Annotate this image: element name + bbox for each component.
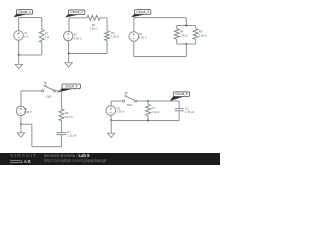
wire right-lower c2	[106, 41, 108, 54]
wire bottom bus c3	[177, 43, 196, 45]
svg-text:SW1: SW1	[46, 94, 52, 98]
voltage source V4	[16, 106, 25, 115]
wire right-upper c1	[41, 17, 43, 29]
node flag Circuit_5	[170, 95, 184, 101]
svg-text:6.35 V: 6.35 V	[139, 36, 147, 40]
svg-text:6.1k Ω: 6.1k Ω	[151, 110, 159, 114]
wire bottom c2	[69, 52, 107, 54]
voltage source V3	[129, 32, 139, 42]
CircuitLab logo	[10, 154, 36, 159]
svg-text:Circuit_1: Circuit_1	[18, 10, 31, 14]
node R7 bottom junction	[147, 119, 149, 121]
svg-text:1 Ω: 1 Ω	[45, 35, 49, 39]
resistor R5	[193, 29, 198, 40]
wire left-lower c4	[20, 116, 22, 125]
resistor R6	[59, 109, 64, 121]
wire R5 top stub	[195, 25, 197, 28]
svg-text:R6: R6	[65, 111, 69, 115]
node junction c1	[18, 54, 20, 56]
node flag Circuit_2	[65, 13, 79, 17]
attribution text	[44, 153, 89, 158]
svg-text:6.35 V: 6.35 V	[74, 36, 82, 40]
svg-text:V3: V3	[139, 32, 143, 36]
ground c1	[15, 64, 22, 68]
svg-text:R7: R7	[151, 106, 155, 110]
svg-text:R5: R5	[199, 30, 203, 34]
node junction c5	[110, 119, 112, 121]
wire left-lower c2	[67, 41, 69, 54]
svg-text:Circuit_2: Circuit_2	[70, 10, 83, 14]
wire right-upper c4	[60, 91, 62, 109]
switch SW2	[122, 100, 124, 102]
svg-text:Circuit_4: Circuit_4	[65, 85, 78, 89]
svg-text:1.35 µF: 1.35 µF	[185, 110, 195, 114]
capacitor C2	[175, 108, 184, 110]
wire bottom c4	[32, 146, 62, 148]
resistor R3	[105, 31, 110, 41]
svg-text:Circuit_5: Circuit_5	[175, 92, 188, 96]
svg-text:6.1k Ω: 6.1k Ω	[65, 115, 73, 119]
wire left-upper c2	[68, 18, 70, 32]
wire R7 bottom stub	[147, 116, 149, 121]
wire left-upper c4	[20, 91, 22, 106]
wire top-left c4	[21, 90, 42, 92]
node bottom bus junction c3	[185, 43, 187, 45]
svg-text:R3: R3	[111, 31, 115, 35]
voltage source V5	[106, 106, 116, 116]
wire left-lower c5	[110, 115, 112, 120]
svg-text:1.9k Ω: 1.9k Ω	[180, 33, 188, 37]
wire cap-bottom c4	[60, 135, 62, 147]
watermark bar	[0, 153, 220, 165]
resistor R1	[39, 29, 44, 42]
svg-text:V4: V4	[24, 107, 28, 111]
wire top c1	[19, 16, 42, 18]
switch SW1	[42, 90, 44, 92]
svg-text:3.9k Ω: 3.9k Ω	[90, 27, 98, 31]
wire ground stub c2	[68, 53, 70, 62]
wire ground stub c4	[20, 124, 22, 133]
ground c5	[107, 133, 114, 137]
resistor R2	[87, 15, 100, 20]
wire right-upper c2	[106, 18, 108, 31]
wire right drop c3	[185, 18, 187, 26]
node top bus junction c3	[185, 24, 187, 26]
wire ground stub c1	[18, 55, 20, 64]
wire ground stub c5	[110, 120, 112, 133]
wire R5 bottom stub	[195, 39, 197, 44]
wire top-right c4	[56, 90, 62, 92]
svg-text:R2: R2	[92, 23, 96, 27]
wire left-lower c1	[18, 40, 20, 55]
wire top-right c2	[100, 17, 107, 19]
wire C2 top stub	[178, 101, 180, 109]
wire R7 top stub	[147, 101, 149, 104]
svg-text:6.35 V: 6.35 V	[24, 110, 32, 114]
svg-text:5 V: 5 V	[24, 35, 28, 39]
ground c4	[17, 133, 24, 137]
resistor R4	[174, 29, 179, 40]
svg-text:R4: R4	[180, 30, 184, 34]
wire mid c4	[60, 121, 62, 133]
wire left-upper c1	[18, 17, 20, 30]
wire elbow horizontal c4	[21, 123, 32, 125]
node junction c4	[20, 123, 22, 125]
node flag Circuit_3	[131, 13, 145, 17]
voltage source V2	[64, 31, 73, 40]
wire left-upper c5	[110, 101, 112, 106]
capacitor C1	[57, 132, 67, 134]
wire bottom c5	[111, 119, 179, 121]
wire bottom c3	[134, 55, 187, 57]
svg-text:V1: V1	[24, 31, 28, 35]
node junction c2	[68, 52, 70, 54]
wire top bus c3	[177, 24, 196, 26]
node flag Circuit_1	[13, 13, 26, 18]
wire elbow vertical c4	[31, 124, 33, 146]
svg-text:1.9k Ω: 1.9k Ω	[111, 35, 119, 39]
svg-text:V5: V5	[117, 106, 121, 110]
svg-text:V2: V2	[74, 33, 78, 37]
wire C2 bottom stub	[178, 111, 180, 121]
wire top-left c5	[111, 100, 122, 102]
svg-text:SW2: SW2	[127, 103, 133, 107]
svg-text:Circuit_3: Circuit_3	[136, 10, 149, 14]
wire right riser c3	[185, 44, 187, 56]
wire bottom c1	[19, 54, 42, 56]
svg-text:1.35 µF: 1.35 µF	[67, 134, 77, 138]
svg-text:1.9k Ω: 1.9k Ω	[199, 33, 207, 37]
wire left-lower c3	[133, 41, 135, 56]
wire R4 bottom stub	[176, 39, 178, 44]
wire R4 top stub	[176, 25, 178, 28]
wire top c3	[134, 17, 187, 19]
wire left-upper c3	[133, 18, 135, 32]
wire top-right c5	[137, 100, 180, 102]
node R7 top junction	[147, 100, 149, 102]
node flag Circuit_4	[57, 87, 72, 92]
resistor R7	[146, 104, 151, 115]
svg-text:6.35 V: 6.35 V	[117, 110, 125, 114]
voltage source V1	[14, 31, 24, 41]
wire right-lower c1	[41, 42, 43, 55]
svg-text:R1: R1	[45, 31, 49, 35]
ground c2	[65, 63, 72, 67]
wire top-left c2	[69, 17, 87, 19]
